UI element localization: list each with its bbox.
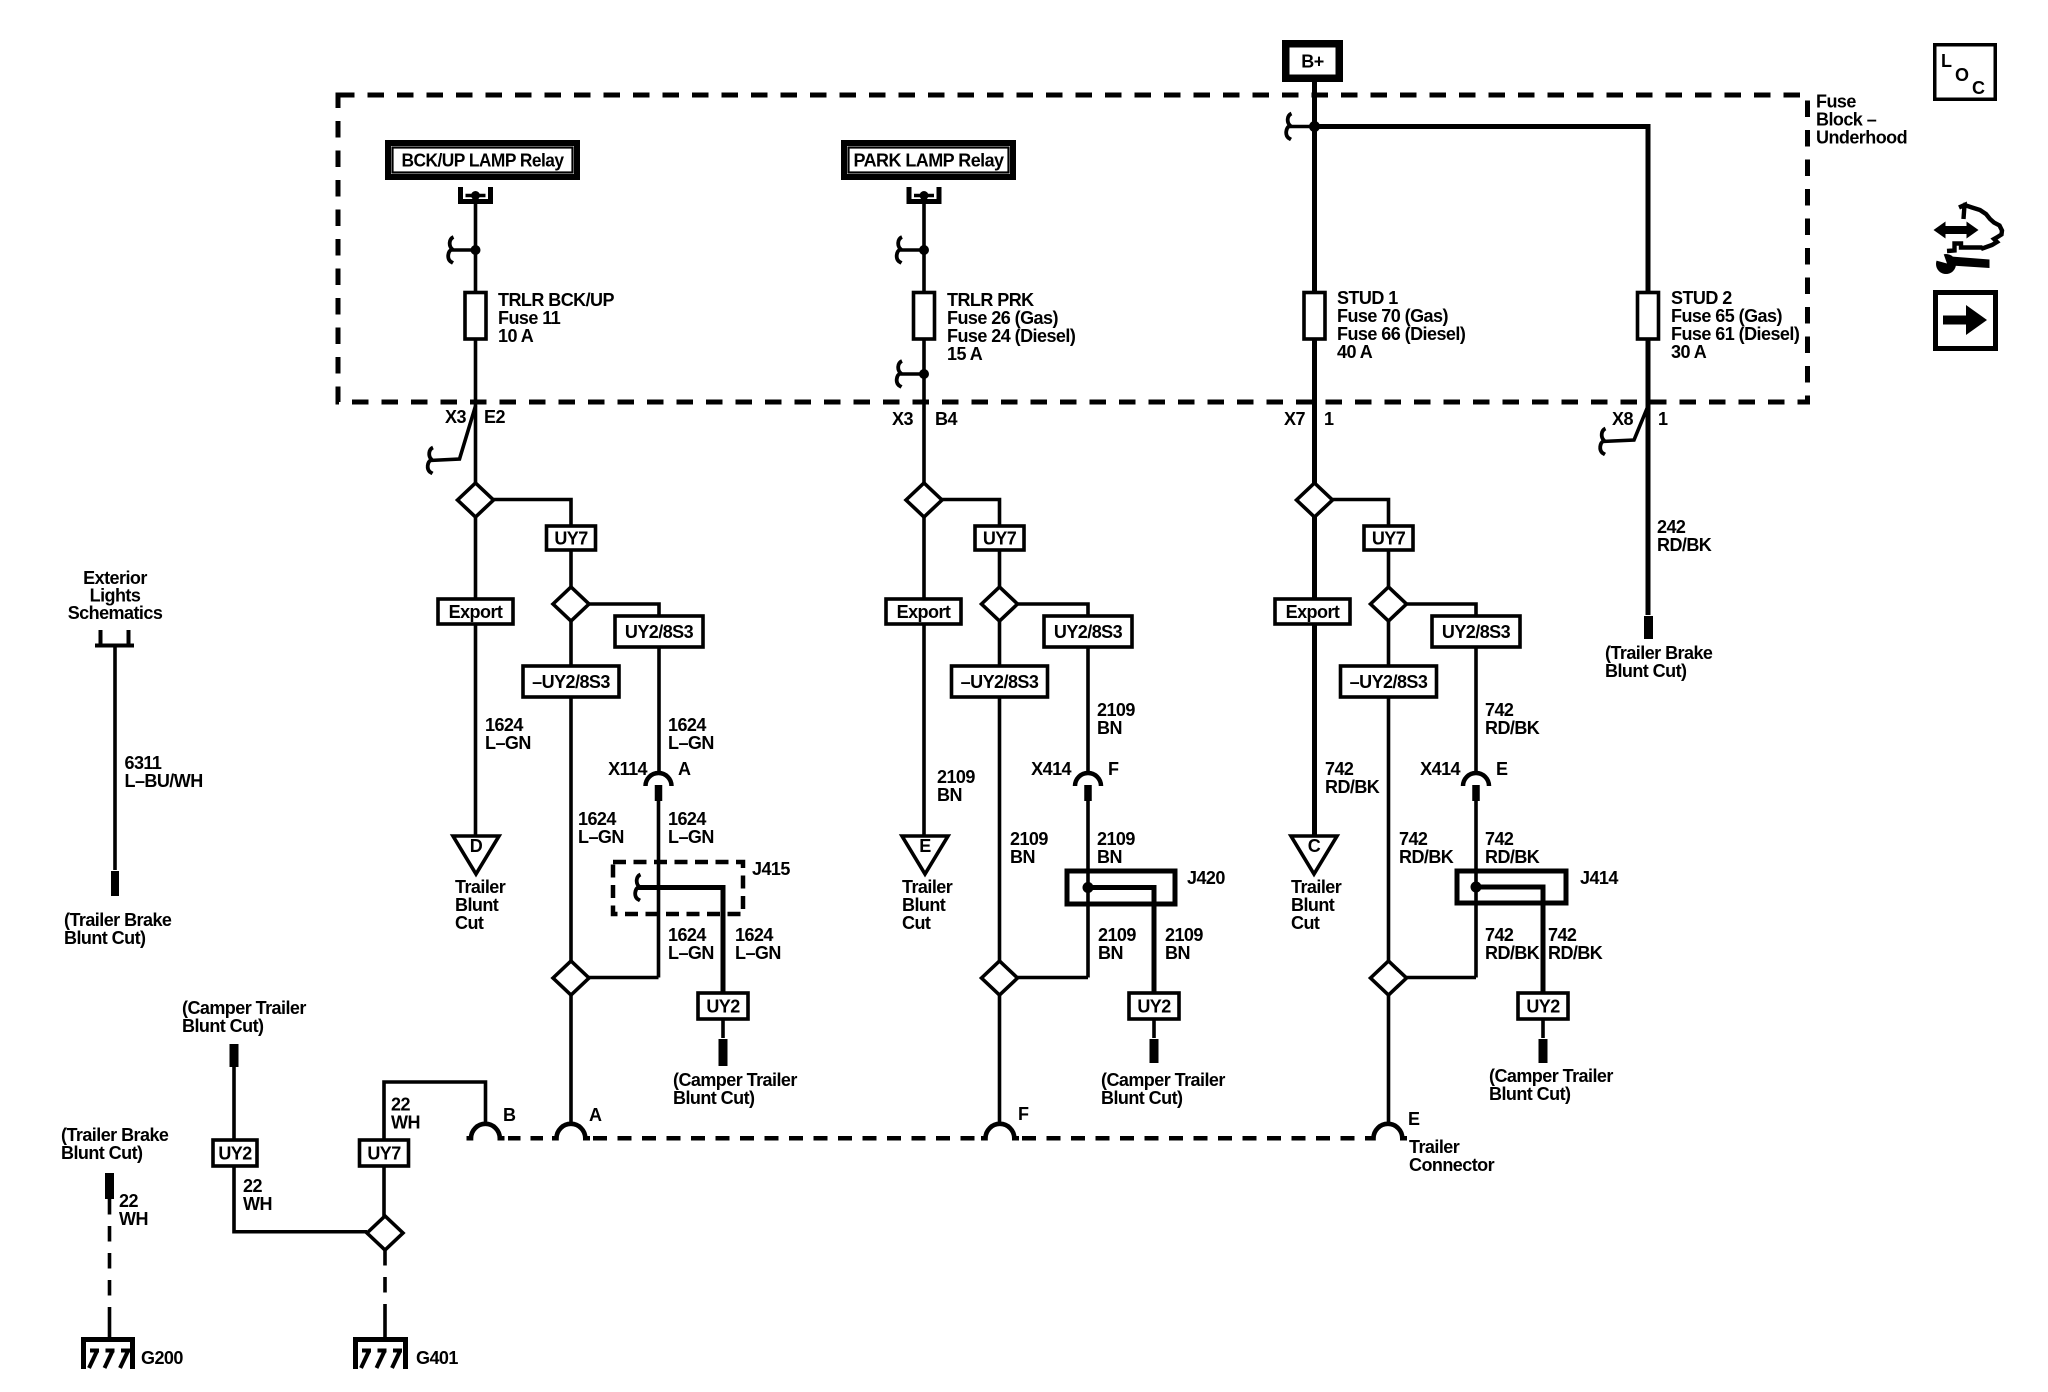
splice J415 dashed box [613, 862, 743, 914]
terminal triangle E trailer blunt cut [902, 836, 948, 874]
svg-text:STUD 2: STUD 2 [1671, 288, 1732, 308]
svg-text:RD/BK: RD/BK [1325, 777, 1380, 797]
fuse F70/F66 STUD 1 [1304, 293, 1325, 340]
svg-text:X3: X3 [892, 409, 913, 429]
svg-text:Cut: Cut [902, 913, 931, 933]
junction dot inside J414 [1471, 882, 1482, 893]
svg-text:Trailer: Trailer [455, 877, 506, 897]
wire: fuse TRLR PRK to connector X3 pin B4 and splice [922, 339, 926, 483]
svg-text:–UY2/8S3: –UY2/8S3 [532, 672, 610, 692]
wire: UY2/8S3 to connector X414 (col2) circuit 2109 [1086, 647, 1090, 774]
svg-text:UY2/8S3: UY2/8S3 [1054, 622, 1123, 642]
splice diamond S4 (park circuit) [906, 483, 942, 517]
label: 742 RD/BK (J414 right leg) [1548, 925, 1603, 963]
wire: X414 to splice J414 circuit 742 [1474, 800, 1478, 978]
option box UY2 (col1) [698, 993, 748, 1019]
label: TRLR BCK/UP Fuse 11 10 A [498, 290, 614, 346]
splice diamond S5 (col2) [982, 587, 1018, 621]
wire: branch from B+ junction to STUD 2 feed [1315, 127, 1649, 293]
trailer connector cavity E [1369, 1124, 1407, 1138]
svg-text:A: A [589, 1105, 602, 1125]
label: pin F [1018, 1104, 1029, 1124]
clip on PARK feed wire upper [897, 237, 929, 263]
junction node at B+ branch [1309, 121, 1320, 132]
label: 22 WH (UY2 drop) [243, 1176, 272, 1214]
wire: splice S1 to Export box (col1) [474, 517, 478, 599]
svg-text:Fuse 26 (Gas): Fuse 26 (Gas) [947, 308, 1058, 328]
svg-text:X3: X3 [445, 407, 466, 427]
svg-text:RD/BK: RD/BK [1485, 943, 1540, 963]
label: Trailer Blunt Cut (col1) [455, 877, 506, 933]
label: 742 RD/BK (below X414 col3) [1485, 829, 1540, 867]
svg-text:RD/BK: RD/BK [1657, 535, 1712, 555]
label: camper trailer blunt cut (col1) [673, 1070, 797, 1108]
svg-text:2109: 2109 [1098, 925, 1136, 945]
splice diamond S6 (col2) [982, 961, 1018, 995]
svg-text:RD/BK: RD/BK [1485, 718, 1540, 738]
svg-text:L–GN: L–GN [735, 943, 781, 963]
wire: splice S2 to -UY2/8S3 (col1) [569, 621, 573, 666]
svg-text:UY2/8S3: UY2/8S3 [1442, 622, 1511, 642]
wire: splice S3 branch to J415 leg (col1) [589, 976, 659, 980]
svg-text:A: A [678, 759, 691, 779]
svg-text:BN: BN [1097, 718, 1122, 738]
wire: STUD 2 fuse to X8 and blunt end [1646, 339, 1651, 615]
svg-text:L–GN: L–GN [578, 827, 624, 847]
wire: trailer connector pin B lead to UY7 [384, 1082, 486, 1140]
label: 1624 L-GN (below -UY2/8S3 col1) [578, 809, 624, 847]
in-line connector X414 pin F [1075, 773, 1101, 801]
svg-text:Fuse 61 (Diesel): Fuse 61 (Diesel) [1671, 324, 1800, 344]
wire: camper blunt cut to UY2 box [232, 1067, 236, 1140]
svg-text:BN: BN [937, 785, 962, 805]
label: 742 RD/BK (below -UY2/8S3 col3) [1399, 829, 1454, 867]
label: Trailer Connector [1409, 1137, 1495, 1175]
wire: UY2/8S3 to connector X414 (col3) circuit 742 [1474, 647, 1478, 774]
svg-text:G401: G401 [416, 1348, 458, 1368]
ground G401 [356, 1340, 459, 1370]
svg-text:(Trailer Brake: (Trailer Brake [1605, 643, 1713, 663]
svg-text:Blunt: Blunt [1291, 895, 1335, 915]
label: 2109 BN (J420 left leg) [1098, 925, 1136, 963]
svg-text:J415: J415 [752, 859, 790, 879]
option box Export (col1) [438, 599, 513, 624]
svg-text:Blunt Cut): Blunt Cut) [61, 1143, 143, 1163]
wire: Export to trailer blunt cut C (col3) circuit 742 [1312, 624, 1317, 836]
splice diamond S1 (backup circuit) [458, 483, 494, 517]
svg-text:UY2: UY2 [1526, 997, 1560, 1017]
wire: splice S1 to UY7 branch (col1) [494, 500, 572, 527]
svg-text:X8: X8 [1612, 409, 1633, 429]
label: 1624 L-GN (col1 export wire) [485, 715, 531, 753]
svg-text:E: E [1408, 1109, 1420, 1129]
svg-text:Blunt Cut): Blunt Cut) [182, 1016, 264, 1036]
label: TRLR PRK Fuse 26 (Gas) Fuse 24 (Diesel) 15 A [947, 290, 1076, 364]
ground G200 [84, 1340, 184, 1370]
trailer connector cavity B [467, 1124, 505, 1138]
svg-text:40 A: 40 A [1337, 342, 1373, 362]
svg-text:(Camper Trailer: (Camper Trailer [1101, 1070, 1225, 1090]
svg-text:B4: B4 [935, 409, 957, 429]
option box Export (col3) [1275, 599, 1350, 624]
wire: splice S2 to UY2/8S3 branch (col1) [589, 604, 659, 616]
option box UY7 (col1) [547, 526, 596, 550]
svg-text:UY7: UY7 [983, 529, 1017, 549]
wire: Export to trailer blunt cut D (col1) circuit 1624 [474, 624, 478, 836]
svg-text:1: 1 [1324, 409, 1334, 429]
wire: splice S3 to trailer connector pin A [569, 995, 573, 1125]
wire: UY7 to splice S8 (col3) [1387, 550, 1391, 587]
label: 2109 BN (col2 UY2/8S3 wire) [1097, 700, 1135, 738]
svg-text:–UY2/8S3: –UY2/8S3 [1350, 672, 1428, 692]
svg-text:Trailer: Trailer [1291, 877, 1342, 897]
option box -UY2/8S3 (col2) [952, 666, 1048, 697]
wire: relay K2 pin to fuse 26/24 [922, 196, 926, 293]
connector X8 pin 1 lead symbol [1600, 406, 1648, 455]
label: 22 WH (UY7 drop) [391, 1095, 420, 1133]
splice diamond S2 (col1) [553, 587, 589, 621]
svg-text:742: 742 [1485, 829, 1514, 849]
clip at B+ junction [1286, 114, 1310, 140]
svg-text:1: 1 [1658, 409, 1668, 429]
svg-text:Export: Export [1286, 602, 1340, 622]
wire: splice S6 branch to J420 leg (col2) [1018, 976, 1089, 980]
label: X8 / 1 [1612, 409, 1668, 429]
svg-text:742: 742 [1485, 700, 1514, 720]
option box UY7 (col3) [1364, 526, 1413, 550]
label: X414 F [1031, 759, 1119, 779]
svg-text:Fuse 11: Fuse 11 [498, 308, 561, 328]
label: 22 WH (G200 drop) [119, 1191, 148, 1229]
label: Trailer Blunt Cut (col3) [1291, 877, 1342, 933]
option box UY2 (col2) [1129, 993, 1179, 1019]
wire: UY2 to ground splice diamond [234, 1166, 367, 1232]
svg-text:E2: E2 [484, 407, 505, 427]
svg-text:O: O [1955, 65, 1969, 85]
svg-text:L–BU/WH: L–BU/WH [125, 771, 203, 791]
wire: -UY2/8S3 down to splice S6 (col2) circuit 2109 [998, 697, 1002, 961]
terminal triangle D trailer blunt cut [453, 836, 499, 874]
clip inside J415 [635, 875, 640, 901]
option box UY7 (lower left) [360, 1140, 409, 1166]
relay K2 output pin symbol [909, 187, 939, 202]
label: X3 / E2 [445, 407, 505, 427]
svg-text:B+: B+ [1301, 52, 1323, 72]
label: J415 [752, 859, 790, 879]
label: 1624 L-GN (below X114 col1) [668, 809, 714, 847]
label: J414 [1580, 868, 1618, 888]
terminal triangle C trailer blunt cut [1291, 836, 1337, 874]
label: trailer brake blunt cut (6311) [64, 910, 172, 948]
clip on BCK/UP feed wire [448, 237, 480, 263]
wire: splice S4 to UY7 branch (col2) [942, 500, 1000, 527]
label: X7 | 1 [1284, 409, 1334, 429]
svg-text:B: B [503, 1105, 516, 1125]
wire: J420 branch to UY2 drop (col2) [1088, 888, 1154, 994]
battery positive terminal B+ [1286, 44, 1340, 79]
svg-text:2109: 2109 [1165, 925, 1203, 945]
svg-text:Blunt: Blunt [455, 895, 499, 915]
clip on PARK feed wire lower [897, 361, 929, 387]
svg-text:Cut: Cut [1291, 913, 1320, 933]
svg-text:D: D [470, 836, 483, 856]
svg-text:Blunt Cut): Blunt Cut) [1101, 1088, 1183, 1108]
label: 6311 L-BU/WH [125, 753, 203, 791]
svg-text:UY7: UY7 [1372, 529, 1406, 549]
svg-text:X114: X114 [608, 759, 647, 779]
svg-text:2109: 2109 [937, 767, 975, 787]
svg-text:22: 22 [391, 1095, 410, 1115]
svg-text:Blunt Cut): Blunt Cut) [64, 928, 146, 948]
relay K1 BCK/UP LAMP Relay name box [388, 143, 577, 177]
svg-text:(Trailer Brake: (Trailer Brake [61, 1125, 169, 1145]
svg-text:Blunt Cut): Blunt Cut) [1489, 1084, 1571, 1104]
svg-text:Connector: Connector [1409, 1155, 1495, 1175]
wire: UY2/8S3 to connector X114 (col1) circuit 1624 [657, 647, 661, 774]
label: X114 A [608, 759, 691, 779]
label: STUD 2 Fuse 65 (Gas) Fuse 61 (Diesel) 30 A [1671, 288, 1800, 362]
label: camper trailer blunt cut (col3) [1489, 1066, 1613, 1104]
svg-text:UY2/8S3: UY2/8S3 [625, 622, 694, 642]
trailer connector dashed body line [508, 1136, 1374, 1141]
wire: -UY2/8S3 down to splice S9 (col3) circuit 742 [1387, 697, 1391, 961]
label: pin E [1408, 1109, 1420, 1129]
wire: splice S5 to UY2/8S3 branch (col2) [1018, 604, 1089, 616]
blunt cut end camper trailer (col1) [719, 1039, 728, 1066]
svg-text:242: 242 [1657, 517, 1686, 537]
wire: J414 branch to UY2 drop (col3) [1476, 887, 1543, 993]
svg-text:RD/BK: RD/BK [1485, 847, 1540, 867]
svg-text:2109: 2109 [1097, 700, 1135, 720]
svg-text:L–GN: L–GN [668, 943, 714, 963]
wire: X414 to splice J420 circuit 2109 [1086, 800, 1090, 978]
svg-text:22: 22 [119, 1191, 138, 1211]
svg-text:(Camper Trailer: (Camper Trailer [1489, 1066, 1613, 1086]
connector X3 pin E2 lead symbol [428, 406, 476, 474]
wire: relay K1 pin to fuse 11 [474, 196, 478, 293]
wire: UY2 to camper trailer blunt cut (col1) [721, 1019, 725, 1038]
label: J420 [1187, 868, 1225, 888]
svg-text:10 A: 10 A [498, 326, 534, 346]
option box UY7 (col2) [975, 526, 1024, 550]
wire: splice S8 to -UY2/8S3 (col3) [1387, 621, 1391, 666]
blunt cut end of circuit 242 [1644, 616, 1653, 639]
svg-text:PARK LAMP Relay: PARK LAMP Relay [854, 151, 1005, 171]
splice J414 box [1457, 871, 1566, 903]
fuse F11 TRLR BCK/UP [465, 293, 486, 340]
label: 242 RD/BK [1657, 517, 1712, 555]
wire: splice S5 to -UY2/8S3 (col2) [998, 621, 1002, 666]
svg-text:BN: BN [1165, 943, 1190, 963]
wire: UY7 to ground splice diamond [382, 1166, 386, 1216]
wire: UY2 to camper trailer blunt cut (col2) [1152, 1019, 1156, 1038]
label: 1624 L-GN (col1 UY2/8S3 wire) [668, 715, 714, 753]
svg-text:X414: X414 [1420, 759, 1460, 779]
svg-text:RD/BK: RD/BK [1399, 847, 1454, 867]
blunt cut end circuit 6311 [111, 871, 119, 896]
junction dot inside J420 [1083, 882, 1094, 893]
wire: splice S4 to Export box (col2) [922, 517, 926, 599]
label: 1624 L-GN (J415 right leg) [735, 925, 781, 963]
relay K2 PARK LAMP Relay name box [844, 143, 1013, 177]
svg-text:2109: 2109 [1010, 829, 1048, 849]
splice diamond S9 (col3) [1371, 961, 1407, 995]
svg-text:X7: X7 [1284, 409, 1305, 429]
label: trailer brake blunt cut (22 WH) [61, 1125, 169, 1163]
option box UY2/8S3 (col2) [1044, 616, 1132, 647]
svg-text:Trailer: Trailer [902, 877, 953, 897]
option box UY2 (lower left) [213, 1140, 257, 1166]
svg-text:X414: X414 [1031, 759, 1071, 779]
wire: dashed drop to ground G200 [108, 1199, 112, 1340]
svg-text:(Camper Trailer: (Camper Trailer [673, 1070, 797, 1090]
svg-text:Export: Export [897, 602, 951, 622]
option box -UY2/8S3 (col3) [1341, 666, 1437, 697]
relay K1 output pin symbol [461, 187, 491, 202]
wrench icon [1931, 250, 1990, 275]
label: trailer brake blunt cut (242) [1605, 643, 1713, 681]
option box -UY2/8S3 (col1) [523, 666, 619, 697]
svg-text:UY7: UY7 [367, 1144, 401, 1164]
svg-text:1624: 1624 [735, 925, 773, 945]
option box UY2/8S3 (col3) [1432, 616, 1520, 647]
svg-text:BCK/UP LAMP Relay: BCK/UP LAMP Relay [402, 151, 565, 171]
svg-text:F: F [1108, 759, 1119, 779]
svg-text:L: L [1941, 51, 1952, 71]
svg-text:742: 742 [1325, 759, 1354, 779]
svg-text:BN: BN [1010, 847, 1035, 867]
svg-text:Cut: Cut [455, 913, 484, 933]
wire: J415 branch to UY2 drop (col1) [637, 888, 723, 994]
forward arrow box icon [1936, 293, 1996, 349]
svg-text:1624: 1624 [485, 715, 523, 735]
svg-text:L–GN: L–GN [668, 733, 714, 753]
option box UY2 (col3) [1518, 993, 1568, 1019]
blunt cut end camper trailer (col3) [1539, 1039, 1548, 1063]
svg-text:Trailer: Trailer [1409, 1137, 1460, 1157]
svg-text:(Camper Trailer: (Camper Trailer [182, 998, 306, 1018]
label: pin A [589, 1105, 602, 1125]
label: 742 RD/BK (col3 UY2/8S3 wire) [1485, 700, 1540, 738]
svg-text:BN: BN [1097, 847, 1122, 867]
svg-text:(Trailer Brake: (Trailer Brake [64, 910, 172, 930]
wire: splice S6 to trailer connector pin F [998, 995, 1002, 1125]
svg-text:E: E [1496, 759, 1508, 779]
svg-text:Underhood: Underhood [1816, 128, 1907, 148]
svg-text:Blunt Cut): Blunt Cut) [1605, 661, 1687, 681]
svg-text:15 A: 15 A [947, 344, 983, 364]
wire: fuse 11 to connector X3 pin E2 and splice [474, 339, 478, 483]
svg-text:F: F [1018, 1104, 1029, 1124]
fuse F26/F24 TRLR PRK [914, 293, 935, 340]
svg-text:1624: 1624 [578, 809, 616, 829]
option box Export (col2) [886, 599, 961, 624]
in-line connector X114 pin A [646, 773, 672, 801]
svg-text:BN: BN [1098, 943, 1123, 963]
svg-text:742: 742 [1548, 925, 1577, 945]
wire: splice S9 to trailer connector pin E [1387, 995, 1391, 1125]
svg-text:Schematics: Schematics [68, 603, 163, 623]
fuse block underhood dashed boundary box [338, 95, 1808, 402]
wire: B+ feed down to STUD 1 fuse and X7 [1312, 82, 1317, 483]
in-line connector X414 pin E [1463, 773, 1489, 801]
blunt cut end trailer brake 22 WH [105, 1173, 114, 1199]
splice diamond S3 (col1) [553, 961, 589, 995]
svg-text:Blunt: Blunt [902, 895, 946, 915]
wire: UY2 to camper trailer blunt cut (col3) [1541, 1019, 1545, 1038]
svg-text:1624: 1624 [668, 809, 706, 829]
svg-text:30 A: 30 A [1671, 342, 1707, 362]
label: STUD 1 Fuse 70 (Gas) Fuse 66 (Diesel) 40 A [1337, 288, 1466, 362]
label: camper trailer blunt cut (22 WH upper) [182, 998, 306, 1036]
svg-text:742: 742 [1485, 925, 1514, 945]
svg-text:Fuse 66 (Diesel): Fuse 66 (Diesel) [1337, 324, 1466, 344]
splice J420 box [1067, 871, 1175, 904]
svg-text:Fuse 70 (Gas): Fuse 70 (Gas) [1337, 306, 1448, 326]
svg-text:Blunt Cut): Blunt Cut) [673, 1088, 755, 1108]
svg-text:Export: Export [449, 602, 503, 622]
blunt cut end camper trailer (col2) [1150, 1039, 1159, 1063]
trailer connector cavity F [981, 1124, 1019, 1138]
svg-text:Block –: Block – [1816, 110, 1877, 130]
svg-text:Fuse: Fuse [1816, 92, 1856, 112]
wire: dashed drop to ground G401 [383, 1250, 387, 1340]
wire: UY7 to splice S2 (col1) [569, 550, 573, 587]
label: Trailer Blunt Cut (col2) [902, 877, 953, 933]
svg-text:UY2: UY2 [706, 997, 740, 1017]
svg-text:WH: WH [391, 1113, 420, 1133]
svg-text:2109: 2109 [1097, 829, 1135, 849]
wire: splice S7 to UY7 branch (col3) [1333, 500, 1389, 527]
label: 742 RD/BK (J414 left leg) [1485, 925, 1540, 963]
svg-text:WH: WH [119, 1209, 148, 1229]
vehicle outline icon with double arrow [1934, 205, 2003, 252]
svg-text:TRLR BCK/UP: TRLR BCK/UP [498, 290, 614, 310]
label: Fuse Block - Underhood [1816, 92, 1907, 148]
wire: X114 to splice J415 area circuit 1624 [657, 800, 661, 978]
svg-text:WH: WH [243, 1194, 272, 1214]
svg-text:1624: 1624 [668, 715, 706, 735]
svg-text:G200: G200 [141, 1348, 183, 1368]
svg-text:1624: 1624 [668, 925, 706, 945]
label: camper trailer blunt cut (col2) [1101, 1070, 1225, 1108]
svg-text:J414: J414 [1580, 868, 1618, 888]
label: 2109 BN (below X414 col2) [1097, 829, 1135, 867]
label: X3 | B4 [892, 409, 957, 429]
fuse F65/F61 STUD 2 [1638, 293, 1659, 340]
label: 2109 BN (below -UY2/8S3 col2) [1010, 829, 1048, 867]
splice diamond S8 (col3) [1371, 587, 1407, 621]
label: 2109 BN (J420 right leg) [1165, 925, 1203, 963]
label: 2109 BN (col2 export wire) [937, 767, 975, 805]
wire: splice S8 to UY2/8S3 branch (col3) [1407, 604, 1477, 616]
svg-text:22: 22 [243, 1176, 262, 1196]
blunt cut end camper trailer 22 WH [230, 1044, 239, 1067]
svg-text:Fuse 24 (Diesel): Fuse 24 (Diesel) [947, 326, 1076, 346]
svg-text:6311: 6311 [125, 753, 162, 773]
wire: -UY2/8S3 down to splice S3 (col1) circuit 1624 [569, 697, 573, 961]
label: 742 RD/BK (col3 export wire) [1325, 759, 1380, 797]
svg-text:UY7: UY7 [554, 529, 588, 549]
svg-text:L–GN: L–GN [485, 733, 531, 753]
wire: splice S9 branch to J414 leg (col3) [1407, 976, 1477, 980]
svg-text:UY2: UY2 [1137, 997, 1171, 1017]
wire: UY7 to splice S5 (col2) [998, 550, 1002, 587]
svg-text:TRLR PRK: TRLR PRK [947, 290, 1034, 310]
splice diamond S7 (stud1 circuit) [1297, 483, 1333, 517]
label: X414 E [1420, 759, 1508, 779]
svg-text:J420: J420 [1187, 868, 1225, 888]
